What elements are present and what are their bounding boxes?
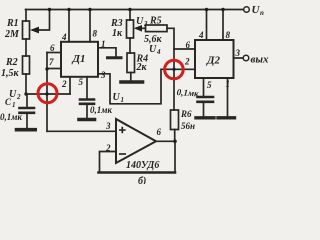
svg-text:1: 1 bbox=[12, 101, 16, 109]
wire D2 pin6 stub bbox=[174, 48, 195, 50]
wire R1 wiper bbox=[38, 10, 50, 31]
wire R5 right to node U4 bbox=[167, 28, 174, 49]
wire D1 pin8 bbox=[89, 10, 91, 42]
svg-text:С: С bbox=[5, 97, 12, 107]
resistor R4 bbox=[127, 53, 135, 73]
resistor R5 bbox=[146, 25, 168, 32]
capacitor C3 at D2 pin5 bbox=[198, 96, 214, 99]
svg-text:U: U bbox=[113, 92, 121, 103]
ground D1 pin1 bbox=[108, 56, 122, 59]
svg-text:вых: вых bbox=[251, 54, 270, 66]
wire op-amp output bbox=[156, 140, 175, 142]
svg-text:U: U bbox=[136, 16, 144, 27]
wire R1 top lead bbox=[25, 10, 27, 22]
wire R1-R2 bbox=[25, 39, 27, 56]
wire D1 pins 6-7 vertical bbox=[46, 53, 48, 132]
annotation red circle at U2 junction bbox=[38, 84, 57, 103]
svg-text:3: 3 bbox=[105, 121, 111, 131]
wire D1 pin3 to node U1 and D2 pin2 bbox=[98, 69, 195, 104]
IC D2 bbox=[195, 40, 234, 78]
svg-text:5: 5 bbox=[207, 80, 212, 90]
ground D2 pin1 bbox=[218, 116, 235, 119]
resistor R1 (potentiometer) bbox=[23, 21, 30, 39]
resistor R6 bbox=[171, 110, 179, 130]
svg-text:2к: 2к bbox=[136, 62, 148, 73]
svg-text:8: 8 bbox=[226, 30, 231, 40]
wire D1 pin1 to ground bbox=[98, 48, 116, 57]
svg-text:0,1мк: 0,1мк bbox=[0, 112, 22, 122]
svg-text:8: 8 bbox=[93, 29, 98, 39]
ground C3 bbox=[196, 116, 214, 119]
svg-text:п: п bbox=[260, 9, 264, 17]
svg-text:4: 4 bbox=[156, 48, 161, 56]
wire R3-R4 bbox=[129, 38, 131, 53]
wire R2 bottom to node U2 bbox=[25, 74, 27, 94]
junction U2 cross bbox=[45, 92, 48, 95]
wire R6 bottom to op-amp output bbox=[174, 130, 176, 142]
ground C2 bbox=[79, 118, 95, 122]
IC D1 bbox=[61, 42, 98, 77]
svg-text:2: 2 bbox=[61, 79, 67, 89]
terminal Un bbox=[244, 7, 250, 13]
svg-text:6: 6 bbox=[157, 127, 162, 137]
wire D1 pin2 stub bbox=[69, 77, 71, 94]
ground C1 bbox=[17, 128, 36, 132]
svg-text:0,1мк: 0,1мк bbox=[176, 87, 199, 99]
svg-text:Д2: Д2 bbox=[206, 55, 221, 67]
wire D2 pin5 stub bbox=[203, 78, 205, 96]
svg-text:U: U bbox=[149, 44, 157, 55]
wire node U4 vertical bbox=[173, 49, 175, 110]
wire D2 pin4 bbox=[206, 10, 208, 41]
wire D2 pin3 output bbox=[234, 57, 244, 59]
terminal Vyh bbox=[243, 55, 249, 61]
wire D2 pin8 bbox=[222, 10, 224, 41]
resistor R3 (potentiometer) bbox=[129, 10, 131, 21]
resistor R2 bbox=[23, 56, 30, 74]
svg-text:б): б) bbox=[138, 176, 146, 184]
svg-text:6: 6 bbox=[50, 43, 55, 53]
svg-text:2М: 2М bbox=[4, 29, 20, 40]
svg-text:1: 1 bbox=[121, 96, 125, 104]
svg-text:3: 3 bbox=[235, 48, 241, 58]
svg-text:2: 2 bbox=[105, 143, 111, 153]
wire node U2 to op-amp input bbox=[47, 130, 116, 132]
svg-text:140УД6: 140УД6 bbox=[126, 160, 159, 171]
capacitor C1 bbox=[26, 94, 28, 107]
junction pin7 bbox=[45, 67, 48, 70]
capacitor C2 at D1 pin5 bbox=[80, 98, 94, 101]
svg-text:5: 5 bbox=[79, 77, 84, 87]
node U2 junction dot bbox=[24, 92, 27, 95]
wire D1 pin7 stub bbox=[47, 68, 61, 70]
svg-text:R5: R5 bbox=[149, 16, 162, 27]
svg-text:56н: 56н bbox=[181, 121, 195, 131]
wire op-amp inverting input feedback bbox=[100, 152, 117, 173]
svg-text:R6: R6 bbox=[180, 109, 192, 119]
wire D1 pin4 bbox=[68, 10, 70, 42]
svg-text:2: 2 bbox=[16, 93, 21, 101]
annotation red circle at U4 junction bbox=[165, 60, 184, 79]
op-amp minus sign bbox=[119, 153, 126, 155]
svg-text:1,5к: 1,5к bbox=[1, 68, 20, 79]
op-amp U3 triangle bbox=[116, 119, 156, 163]
svg-text:3: 3 bbox=[143, 20, 148, 28]
svg-text:0,1мк: 0,1мк bbox=[90, 105, 112, 115]
svg-text:7: 7 bbox=[49, 57, 54, 67]
svg-text:3: 3 bbox=[100, 70, 106, 80]
svg-text:R2: R2 bbox=[5, 57, 18, 68]
svg-text:6: 6 bbox=[186, 40, 191, 50]
svg-text:Д1: Д1 bbox=[72, 53, 86, 65]
svg-text:4: 4 bbox=[198, 30, 204, 40]
wire node U2 horizontal bbox=[26, 93, 70, 95]
junction U4 cross bbox=[172, 68, 175, 71]
wire top supply rail bbox=[26, 9, 244, 11]
svg-text:R1: R1 bbox=[6, 18, 19, 29]
ground R4 bbox=[121, 80, 143, 84]
svg-text:2: 2 bbox=[184, 57, 190, 67]
svg-text:1: 1 bbox=[226, 79, 231, 89]
wire R3 wiper to R5 bbox=[141, 27, 146, 29]
svg-text:1к: 1к bbox=[112, 28, 123, 39]
wire D2 pin1 to ground bbox=[227, 78, 229, 116]
wire D1 pin5 stub bbox=[86, 77, 88, 99]
svg-text:4: 4 bbox=[61, 32, 67, 42]
wire D1 pin6 stub bbox=[47, 52, 61, 54]
svg-text:1: 1 bbox=[101, 39, 106, 49]
op-amp plus sign bbox=[119, 127, 126, 154]
